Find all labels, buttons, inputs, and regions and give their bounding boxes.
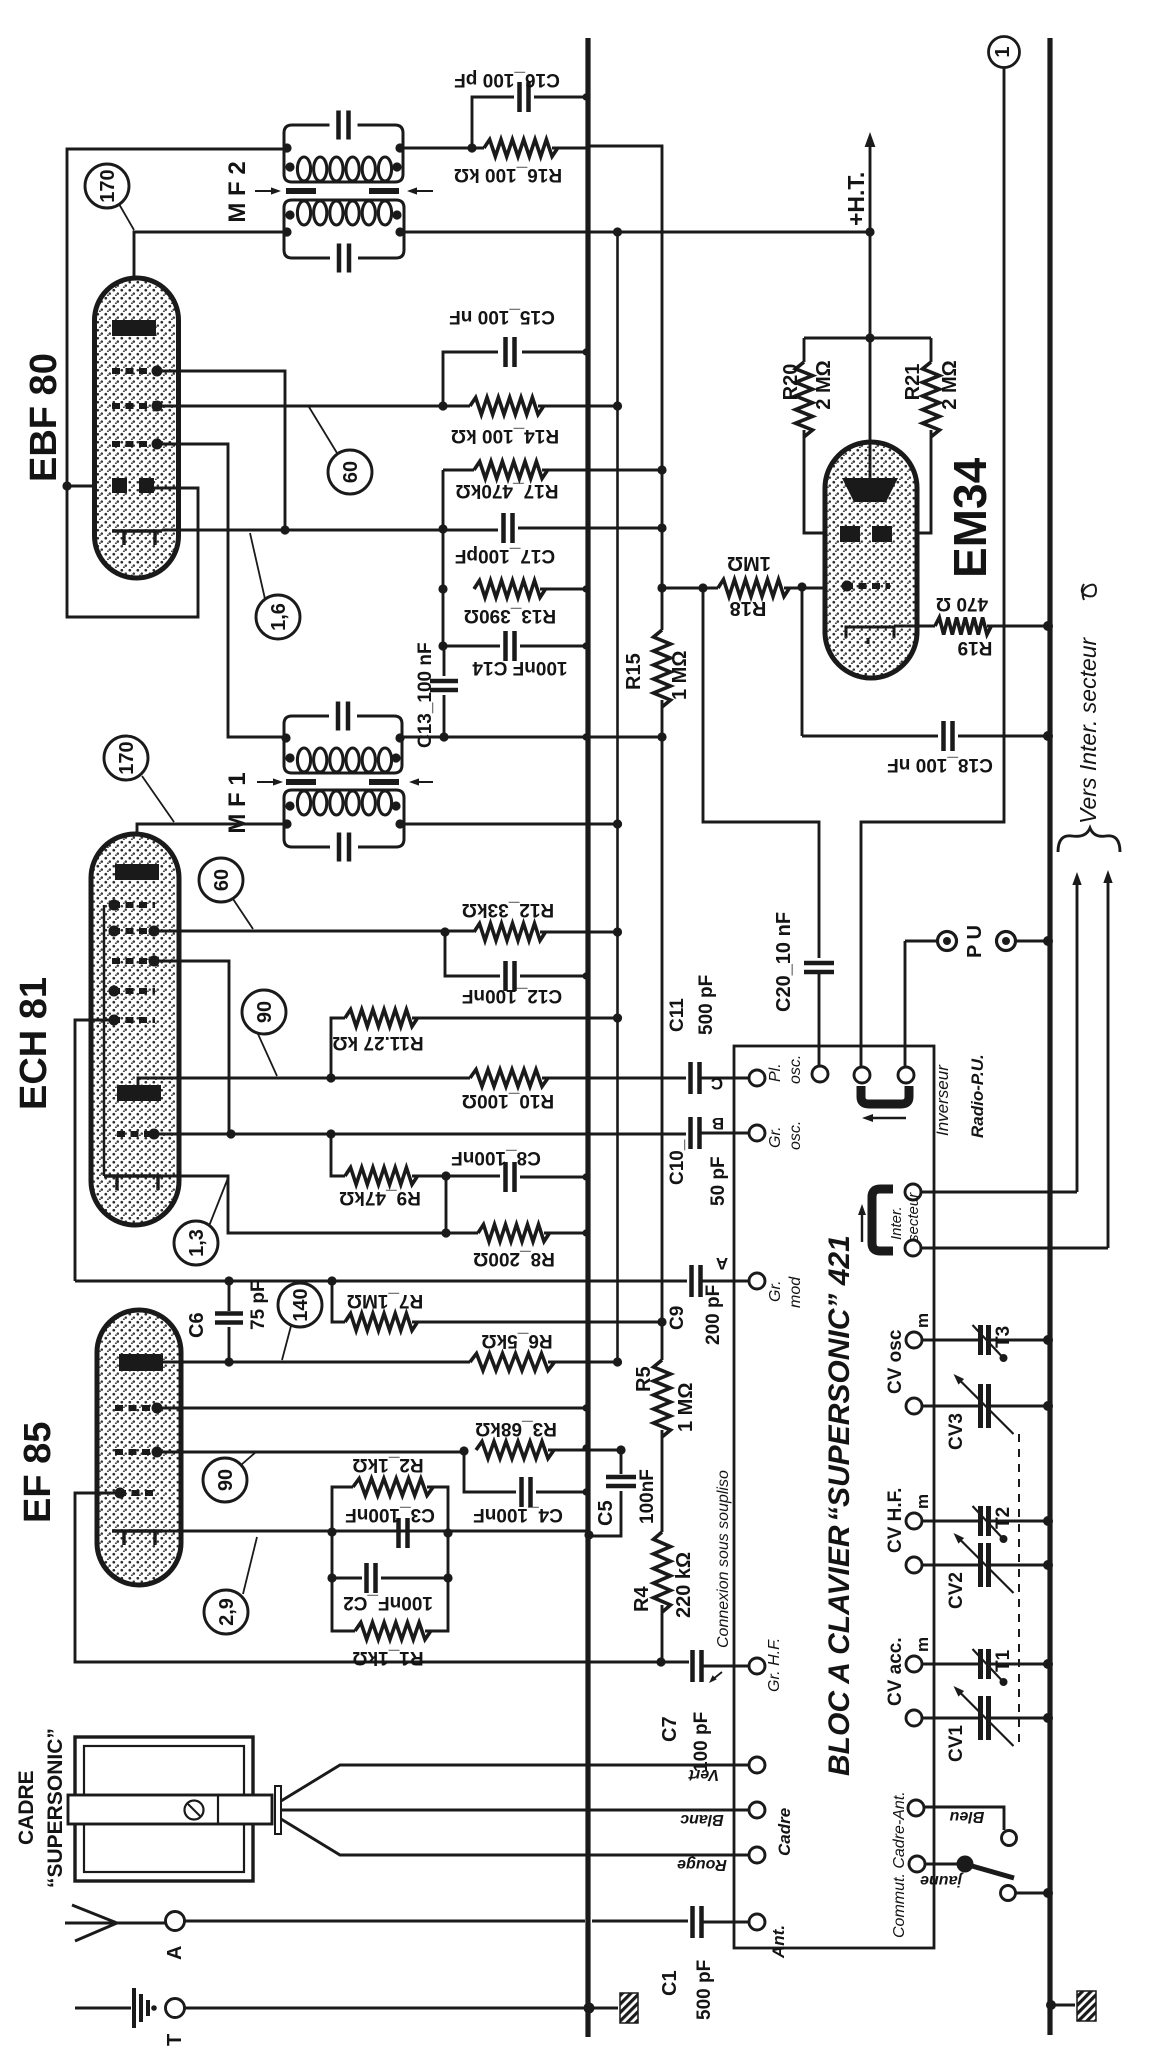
svg-text:Ant.: Ant. — [769, 1925, 788, 1959]
capacitor C9 — [692, 1265, 701, 1297]
EF85 anode plate — [119, 1354, 163, 1371]
ground right bus — [1052, 2004, 1075, 2007]
svg-text:R19: R19 — [958, 637, 993, 658]
terminal Blanc — [749, 1802, 765, 1818]
svg-text:R6_5kΩ: R6_5kΩ — [481, 1330, 552, 1351]
svg-text:CV2: CV2 — [946, 1572, 967, 1609]
svg-text:“SUPERSONIC” 421: “SUPERSONIC” 421 — [823, 1235, 856, 1522]
resistor R6 — [470, 1354, 555, 1371]
EF85 grid rows — [115, 1405, 158, 1411]
svg-text:mod: mod — [787, 1276, 804, 1308]
bloc a clavier box — [734, 1046, 934, 1948]
node 90 ECH81 triode — [242, 990, 286, 1034]
ECH81 grid rows — [112, 902, 155, 908]
svg-text:2 MΩ: 2 MΩ — [813, 360, 835, 409]
wire +HT distribution bus vertical — [616, 232, 619, 1362]
svg-text:C7: C7 — [659, 1716, 681, 1742]
wire squares right to shield loop — [154, 487, 198, 490]
svg-text:R3_68kΩ: R3_68kΩ — [475, 1418, 557, 1439]
svg-text:1: 1 — [992, 46, 1014, 57]
resistor R1 — [355, 1623, 431, 1640]
ECH81 triode grid row — [117, 1131, 155, 1137]
svg-text:Gr.: Gr. — [767, 1280, 784, 1302]
svg-text:+H.T.: +H.T. — [843, 172, 869, 226]
resistor R14 — [438, 401, 447, 410]
svg-text:R7_1MΩ: R7_1MΩ — [347, 1290, 423, 1311]
svg-text:C5: C5 — [595, 1500, 617, 1526]
svg-text:C10_: C10_ — [667, 1139, 688, 1185]
inverseur arrow — [870, 1117, 906, 1119]
svg-text:EM34: EM34 — [944, 457, 996, 578]
ECH81 internal grid strap — [103, 905, 105, 1176]
wire EF85 cathode line — [162, 1530, 586, 1533]
terminal PU left — [905, 940, 938, 943]
svg-text:C11: C11 — [667, 998, 688, 1032]
svg-text:R8_200Ω: R8_200Ω — [473, 1248, 555, 1269]
brace vers inter secteur — [1058, 828, 1120, 852]
svg-text:P U: P U — [964, 925, 986, 958]
core bars MF1 — [286, 779, 316, 785]
svg-text:R16_100 kΩ: R16_100 kΩ — [454, 164, 562, 185]
capacitor C20 — [804, 963, 834, 972]
svg-text:T1: T1 — [993, 1649, 1014, 1672]
svg-text:220 kΩ: 220 kΩ — [673, 1552, 695, 1618]
wire triode anode line — [138, 1078, 470, 1085]
wire antenna line — [184, 1920, 688, 1923]
resistor R18 — [718, 580, 790, 597]
resistor R17 — [474, 462, 548, 479]
resistor R12 — [474, 924, 546, 941]
EBF80 grid1 row — [112, 441, 158, 447]
capacitor C7 — [693, 1650, 702, 1682]
svg-text:ECH 81: ECH 81 — [13, 977, 55, 1110]
capacitor C17 — [504, 513, 513, 543]
wire PU to inverseur — [904, 941, 907, 1046]
svg-text:R11.27 kΩ: R11.27 kΩ — [332, 1032, 423, 1053]
capacitor C6 — [228, 1281, 231, 1311]
wire g1 to MF1 secondary — [152, 444, 284, 737]
resistor R4 — [654, 1532, 671, 1612]
wire EBF80 cathode line — [162, 529, 498, 532]
wire CV row CV2 — [906, 1557, 922, 1573]
resistor R21 — [930, 338, 933, 362]
svg-text:Vers Inter. secteur: Vers Inter. secteur — [1075, 636, 1101, 824]
svg-text:1,3: 1,3 — [186, 1229, 208, 1257]
capacitor C5 — [620, 1450, 623, 1474]
ground symbol T — [75, 2007, 131, 2010]
tube ECH81 envelope — [91, 834, 179, 1225]
svg-text:C1: C1 — [659, 1970, 681, 1996]
svg-text:BLOC A CLAVIER: BLOC A CLAVIER — [823, 1525, 856, 1776]
wire right thick mains/ground bus — [1047, 38, 1052, 2035]
svg-text:CV3: CV3 — [946, 1413, 967, 1450]
svg-text:140: 140 — [290, 1288, 312, 1321]
resistor R16 — [484, 140, 558, 157]
cadre supersonic frame — [75, 1737, 253, 1881]
resistor R2 — [332, 1487, 353, 1532]
svg-text:R5: R5 — [633, 1366, 655, 1392]
capacitor C10 — [691, 1117, 700, 1149]
svg-text:1 MΩ: 1 MΩ — [669, 651, 691, 700]
wire EM34 cathode to R19 — [894, 625, 935, 628]
svg-text:T: T — [164, 2034, 186, 2046]
svg-text:100nF C14: 100nF C14 — [472, 657, 567, 678]
svg-text:R4: R4 — [631, 1586, 653, 1612]
wire ECH81 cathode to R8 — [161, 1176, 478, 1233]
resistor R7 — [345, 1314, 418, 1331]
wire diode 1 to cathode line — [152, 371, 285, 530]
svg-text:C15_100 nF: C15_100 nF — [449, 306, 555, 327]
capacitor C11 — [691, 1062, 700, 1094]
wire CV row T3 — [906, 1332, 922, 1348]
capacitor C2 — [332, 1532, 362, 1578]
wire EF85 anode line — [163, 1361, 470, 1364]
svg-text:m: m — [913, 1494, 932, 1509]
wire cadre leads — [281, 1765, 749, 1801]
svg-text:60: 60 — [340, 461, 362, 483]
svg-text:90: 90 — [215, 1469, 237, 1491]
resistor R2 — [353, 1479, 433, 1496]
svg-text:Inter.: Inter. — [888, 1206, 905, 1240]
ECH81 cathode — [104, 1176, 161, 1190]
EBF80 grid2 row — [112, 403, 158, 409]
resistor R15 — [654, 630, 671, 707]
wire MF1 primary right to +HT bus — [403, 823, 622, 826]
svg-text:Inverseur: Inverseur — [933, 1064, 952, 1136]
wire EM34 grid decoupling drop — [801, 588, 804, 736]
svg-text:200 pF: 200 pF — [703, 1285, 724, 1345]
EM34 target electrode — [869, 338, 872, 480]
wire R18 node down to radio-PU switch — [703, 588, 819, 958]
EM34 deflector squares — [840, 526, 860, 542]
svg-text:m: m — [913, 1313, 932, 1328]
svg-text:Vert: Vert — [688, 1766, 719, 1783]
wire MF1 secondary bottom line — [402, 736, 662, 739]
terminal Ant — [749, 1914, 765, 1930]
capacitor C14 — [438, 641, 447, 650]
inverseur radio-PU terminals — [818, 1046, 821, 1066]
terminal Pl osc (C) — [749, 1070, 765, 1086]
svg-text:R15: R15 — [623, 653, 645, 690]
wire +H.T. arrow — [869, 142, 872, 338]
svg-text:EF 85: EF 85 — [17, 1422, 59, 1523]
capacitor C15 — [522, 351, 588, 354]
svg-text:1MΩ: 1MΩ — [727, 552, 771, 574]
svg-text:C17_100pF: C17_100pF — [455, 545, 555, 566]
wire inter secteur to vers inter secteur arrows — [921, 882, 1077, 1192]
wire triode grid line to C10 — [152, 1133, 686, 1136]
svg-text:C6: C6 — [186, 1312, 208, 1338]
svg-text:R10_100Ω: R10_100Ω — [462, 1090, 554, 1111]
node 60 ECH81 — [199, 858, 243, 902]
node 90 EF85 — [203, 1458, 247, 1502]
resistor R7 — [332, 1281, 345, 1322]
node 2,9 EF85 cathode — [204, 1590, 248, 1634]
wire EBF80 anode to MF2 primary — [134, 232, 286, 320]
svg-text:500 pF: 500 pF — [694, 1960, 715, 2020]
svg-text:R18: R18 — [730, 597, 767, 619]
resistor R9 — [345, 1168, 418, 1185]
capacitor C3 — [399, 1518, 408, 1548]
svg-text:CV1: CV1 — [946, 1725, 967, 1762]
svg-text:R20: R20 — [780, 364, 802, 401]
trimmer T2 — [981, 1506, 989, 1536]
svg-text:C9: C9 — [667, 1306, 688, 1330]
svg-text:R9_47kΩ: R9_47kΩ — [339, 1187, 421, 1208]
resistor R13 — [438, 584, 447, 593]
resistor R20 — [796, 362, 813, 437]
resistor R19 — [935, 618, 991, 635]
EF85 cathode — [112, 1531, 162, 1545]
resistor R10 — [470, 1070, 548, 1087]
wire hexode g1 to A line — [75, 1020, 117, 1281]
svg-text:60: 60 — [211, 869, 233, 891]
wire ground bus (chassis) vertical — [585, 38, 590, 2037]
EM34 cathode — [846, 627, 894, 644]
svg-text:100 pF: 100 pF — [691, 1712, 712, 1772]
wire MF2 secondary top to EBF80 diode loop — [67, 149, 286, 617]
wire g1 line to bus — [158, 1407, 586, 1410]
wire AVC line from R16 through detector chain — [590, 146, 662, 630]
node 170 ECH81 anode — [104, 736, 148, 780]
node 170 EBF80 anode — [85, 164, 129, 208]
wire MF2 primary right to +HT and EM34 — [403, 231, 870, 234]
inter secteur switch — [872, 1189, 893, 1251]
wire CV row T1 — [906, 1656, 922, 1672]
resistor R14 — [470, 398, 544, 415]
node 1,6 EBF80 cathode — [256, 595, 300, 639]
wire R20/R21 top node — [804, 337, 931, 340]
tube EF85 envelope — [97, 1310, 181, 1585]
svg-text:C13_100 nF: C13_100 nF — [415, 642, 436, 748]
junction blobs on ground bus — [582, 93, 589, 100]
svg-text:R14_100 kΩ: R14_100 kΩ — [451, 425, 559, 446]
svg-text:R17_470kΩ: R17_470kΩ — [456, 480, 559, 501]
transformer MF1 secondary box (top) and primary box (bottom) — [284, 716, 402, 773]
wire T line to chassis bus — [184, 2007, 618, 2010]
svg-text:osc.: osc. — [787, 1055, 804, 1084]
wire diode squares left lead — [67, 485, 113, 488]
svg-text:C20_10 nF: C20_10 nF — [773, 912, 795, 1012]
svg-text:secteur: secteur — [905, 1192, 922, 1242]
ECH81 triode anode plate — [117, 1085, 161, 1101]
svg-text:C4_100nF: C4_100nF — [473, 1504, 563, 1525]
svg-text:B: B — [712, 1114, 724, 1133]
trimmer T3 — [981, 1325, 989, 1355]
capacitor C16 — [403, 147, 484, 150]
resistor R20 — [803, 338, 806, 362]
svg-text:“SUPERSONIC”: “SUPERSONIC” — [44, 1728, 67, 1888]
svg-text:osc.: osc. — [787, 1121, 804, 1150]
wire CV row CV1 — [906, 1710, 922, 1726]
variable capacitor CV1 — [981, 1696, 989, 1740]
wire g3/shield line — [75, 1493, 689, 1662]
svg-text:2 MΩ: 2 MΩ — [939, 360, 961, 409]
variable capacitor CV3 — [981, 1384, 989, 1428]
svg-text:CV acc.: CV acc. — [885, 1637, 906, 1706]
EBF80 g3/shield squares — [112, 478, 127, 493]
svg-text:1 MΩ: 1 MΩ — [675, 1383, 697, 1432]
svg-text:C18_100 nF: C18_100 nF — [887, 754, 993, 775]
transformer MF2 primary box (bottom) and secondary box (top) — [284, 125, 403, 182]
EM34 grid row — [845, 583, 890, 589]
svg-text:90: 90 — [254, 1001, 276, 1023]
svg-text:100nF: 100nF — [637, 1469, 658, 1524]
terminal Vert — [749, 1757, 765, 1773]
tube EM34 envelope — [825, 442, 917, 678]
svg-text:CADRE: CADRE — [15, 1770, 38, 1845]
svg-text:CV osc: CV osc — [885, 1329, 906, 1394]
capacitor C13 in series to MF1 line — [443, 646, 446, 676]
node 60 EBF80 — [328, 450, 372, 494]
resistor R12 — [153, 930, 474, 933]
terminal Gr mod (A) — [749, 1273, 765, 1289]
inverseur contact bracket — [861, 1086, 909, 1104]
wire R18 line — [657, 583, 666, 592]
core bars MF2 — [286, 188, 316, 194]
svg-text:A: A — [716, 1254, 728, 1273]
svg-text:2,9: 2,9 — [216, 1598, 238, 1626]
EBF80 anode plate — [112, 320, 156, 336]
svg-text:170: 170 — [97, 169, 119, 202]
svg-text:C3_100nF: C3_100nF — [345, 1504, 435, 1525]
antenna — [65, 1905, 166, 1941]
capacitor C18 — [802, 735, 938, 738]
resistor R11 — [345, 1010, 418, 1027]
capacitor C8 — [446, 1175, 500, 1178]
wire R9/C8 node to R8 — [445, 1176, 448, 1233]
svg-text:1,6: 1,6 — [268, 603, 290, 631]
variable capacitor CV2 — [981, 1543, 989, 1587]
svg-text:50 pF: 50 pF — [708, 1156, 729, 1206]
dashed gang link — [1018, 1434, 1020, 1745]
resistor R5 — [654, 1360, 671, 1437]
svg-text:Pl.: Pl. — [767, 1063, 784, 1082]
wire CV row T2 — [906, 1513, 922, 1529]
svg-text:Cadre: Cadre — [775, 1808, 794, 1856]
svg-text:Blanc: Blanc — [680, 1811, 724, 1828]
resistor R8 — [478, 1225, 550, 1242]
svg-text:170: 170 — [116, 741, 138, 774]
ground chassis hatch — [620, 1993, 638, 2023]
terminal A — [166, 1912, 185, 1931]
svg-text:Radio-P.U.: Radio-P.U. — [968, 1054, 987, 1138]
svg-text:m: m — [913, 1637, 932, 1652]
svg-text:C: C — [711, 1074, 723, 1093]
svg-text:Bleu: Bleu — [949, 1808, 984, 1825]
terminal Gr osc (B) — [749, 1125, 765, 1141]
svg-text:75 pF: 75 pF — [248, 1280, 269, 1330]
wire from node 1 down to oscillator switch net — [861, 68, 1004, 1047]
terminal Gr HF — [749, 1658, 765, 1674]
svg-text:100nF_C2: 100nF_C2 — [343, 1592, 433, 1613]
svg-text:R12_33kΩ: R12_33kΩ — [462, 899, 554, 920]
svg-text:jaune: jaune — [920, 1872, 964, 1889]
wire ECH81 anode to MF1 primary — [137, 824, 286, 864]
wire g2 line — [158, 1451, 464, 1454]
ECH81 anode plate — [115, 864, 159, 880]
svg-text:Gr. H.F.: Gr. H.F. — [766, 1638, 783, 1692]
terminal PU right — [997, 932, 1016, 951]
svg-text:T2: T2 — [993, 1507, 1014, 1529]
wire g osc grid to triode grid line — [153, 961, 229, 1134]
terminal Rouge — [749, 1847, 765, 1863]
trimmer T1 — [981, 1649, 989, 1679]
svg-text:C12_100nF: C12_100nF — [462, 985, 562, 1006]
tube EBF80 envelope — [95, 278, 179, 578]
svg-text:500 pF: 500 pF — [696, 975, 717, 1035]
resistor R5 — [661, 1322, 664, 1360]
EBF80 diode row 1 — [112, 368, 158, 374]
svg-text:EBF 80: EBF 80 — [23, 353, 65, 482]
resistor R9 — [331, 1134, 345, 1176]
resistor R3 — [476, 1442, 554, 1459]
svg-text:CV H.F.: CV H.F. — [885, 1488, 906, 1553]
svg-text:T3: T3 — [993, 1326, 1014, 1348]
node 1: circle terminal top right — [989, 37, 1020, 68]
resistor R1 — [332, 1578, 355, 1631]
svg-text:Connexion sous soupliso: Connexion sous soupliso — [715, 1470, 732, 1648]
svg-text:Commut. Cadre-Ant.: Commut. Cadre-Ant. — [891, 1791, 908, 1938]
resistor R13 — [474, 581, 546, 598]
commut cadre-ant switch — [908, 1800, 924, 1816]
wire A line (Gr mod) — [75, 1280, 687, 1283]
capacitor C1 — [693, 1906, 702, 1938]
EBF80 cathode — [112, 531, 162, 545]
svg-text:R1_1kΩ: R1_1kΩ — [352, 1647, 423, 1668]
resistor R21 — [923, 362, 940, 437]
node 140 EF85 anode — [278, 1283, 322, 1327]
svg-text:C8_100nF: C8_100nF — [451, 1147, 541, 1168]
svg-text:R13_390Ω: R13_390Ω — [464, 605, 556, 626]
svg-text:Gr.: Gr. — [767, 1126, 784, 1148]
terminal T — [166, 1999, 185, 2018]
svg-text:A: A — [164, 1946, 186, 1960]
svg-text:470 Ω: 470 Ω — [936, 593, 988, 614]
svg-text:C16_100 pF: C16_100 pF — [454, 69, 560, 90]
wire CV row CV3 — [906, 1398, 922, 1414]
svg-text:R2_1kΩ: R2_1kΩ — [352, 1454, 423, 1475]
svg-text:M F 2: M F 2 — [224, 161, 251, 222]
svg-text:Rouge: Rouge — [677, 1856, 727, 1873]
resistor R17 — [443, 469, 474, 472]
node 1,3 ECH81 cathode — [174, 1221, 218, 1265]
capacitor C4 — [464, 1451, 516, 1492]
capacitor C12 — [445, 932, 500, 976]
wire g2 row to R14 — [152, 405, 470, 408]
svg-text:R21: R21 — [902, 364, 924, 401]
